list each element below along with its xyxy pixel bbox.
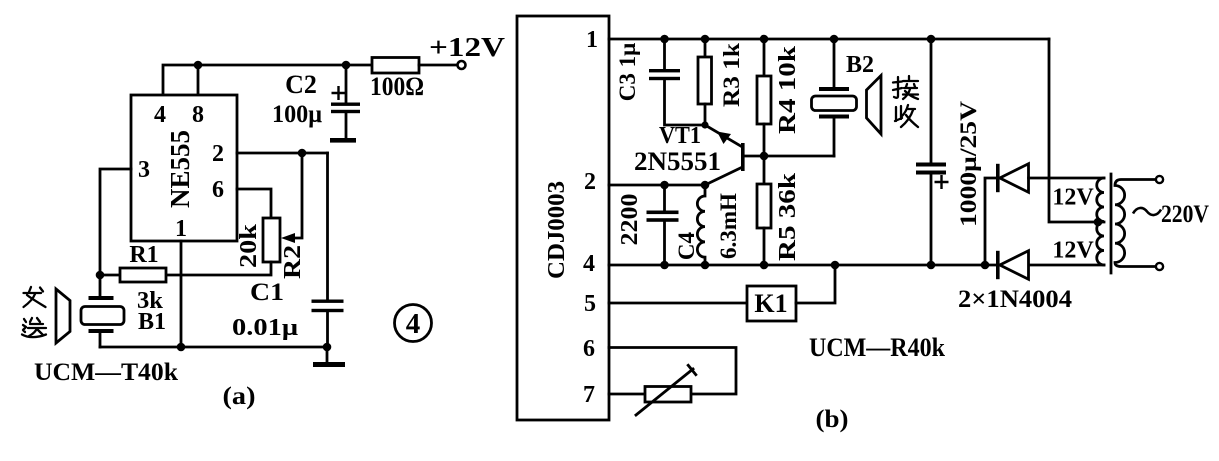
junction B2/rail <box>830 35 839 44</box>
junction R4/rail <box>760 35 769 44</box>
svg-text:5: 5 <box>584 291 596 317</box>
resistor R 100Ω <box>370 58 456 102</box>
preset resistor RP <box>609 365 696 415</box>
svg-text:6.3mH: 6.3mH <box>716 193 741 259</box>
svg-text:12V: 12V <box>1052 238 1094 264</box>
junction C3/rail <box>660 35 669 44</box>
svg-text:100Ω: 100Ω <box>370 72 424 101</box>
transducer B1 <box>81 275 166 347</box>
wire pin 2 rail <box>609 184 705 187</box>
svg-text:UCM—R40k: UCM—R40k <box>809 333 945 362</box>
svg-text:CDJ0003: CDJ0003 <box>544 181 570 279</box>
svg-text:(a): (a) <box>223 383 256 410</box>
junction diode branch/rail4 <box>981 261 990 270</box>
op-amp U1 NE555 <box>131 95 237 242</box>
transformer T primary <box>1115 180 1156 267</box>
svg-text:C3 1μ: C3 1μ <box>615 43 640 101</box>
junction pin8/rail <box>194 61 203 70</box>
junction C5/rail4 <box>927 261 936 270</box>
wire bottom ground rail (a) <box>100 346 328 349</box>
transducer B2 <box>812 39 875 156</box>
wire pin 1 rail <box>609 38 1049 41</box>
junction R5/rail4 <box>760 261 769 270</box>
label UCM-T40k <box>34 359 178 386</box>
svg-text:VT1: VT1 <box>659 123 701 149</box>
capacitor C3 1μ <box>615 39 705 125</box>
capacitor C2 100μ <box>272 65 360 138</box>
junction collector node <box>760 152 769 161</box>
ground under C2 <box>330 138 356 143</box>
resistor R4 10k <box>757 39 801 156</box>
ground under C1 <box>313 347 345 367</box>
svg-text:1: 1 <box>586 27 598 53</box>
label UCM-R40k <box>809 333 945 362</box>
svg-text:1: 1 <box>175 216 187 242</box>
svg-text:C1: C1 <box>250 279 284 306</box>
svg-text:6: 6 <box>212 177 224 203</box>
svg-text:2: 2 <box>212 141 224 167</box>
svg-text:R2: R2 <box>280 245 306 279</box>
IC U2 CDJ0003 <box>517 16 609 420</box>
svg-text:R5 36k: R5 36k <box>775 172 801 261</box>
junction pin2/wiper <box>298 149 307 158</box>
svg-text:0.01μ: 0.01μ <box>232 315 298 341</box>
junction R3/rail <box>701 35 710 44</box>
diode D2 1N4004 (lower) <box>996 251 1029 280</box>
wire top supply rail <box>163 65 372 96</box>
svg-text:100μ: 100μ <box>272 101 322 128</box>
svg-text:3: 3 <box>138 157 150 183</box>
svg-text:K1: K1 <box>754 289 787 318</box>
label ~220V <box>1133 201 1209 228</box>
svg-text:B1: B1 <box>138 309 166 335</box>
svg-text:B2: B2 <box>846 52 874 78</box>
junction pin1/rail <box>177 343 186 352</box>
svg-text:8: 8 <box>192 102 204 128</box>
svg-text:12V: 12V <box>1052 185 1094 211</box>
wire pin 8 stub <box>197 65 200 96</box>
relay K1 <box>609 265 835 321</box>
svg-text:(b): (b) <box>816 406 849 433</box>
terminal +12V <box>429 32 506 69</box>
wire pot bottom to R1 <box>166 262 271 275</box>
svg-text:2: 2 <box>584 169 596 195</box>
text 接收 (receive) <box>893 76 918 127</box>
junction L/rail2 <box>701 181 710 190</box>
wire pin 6 loop <box>609 348 736 395</box>
resistor R5 36k <box>757 156 801 265</box>
svg-text:1000μ/25V: 1000μ/25V <box>956 101 981 227</box>
terminal ~220V bottom <box>1156 263 1163 270</box>
potentiometer R2 20k <box>236 153 306 279</box>
svg-text:R3 1k: R3 1k <box>719 43 744 107</box>
wire pin 4 rail <box>609 264 1104 267</box>
junction rail/C2 <box>342 61 351 70</box>
caption (b) <box>816 406 849 433</box>
diode D1 1N4004 (upper) <box>996 164 1104 193</box>
transformer core <box>1110 174 1113 273</box>
svg-text:R1: R1 <box>129 242 158 268</box>
capacitor C1 0.01μ <box>232 153 344 347</box>
junction centre tap <box>1094 218 1103 227</box>
wire rail to transformer centre tap <box>1049 39 1104 222</box>
caption (a) <box>223 383 256 410</box>
wire pin 2 <box>237 152 328 155</box>
inductor L 6.3mH <box>697 185 741 265</box>
svg-text:2200: 2200 <box>617 194 643 246</box>
label 2×1N4004 <box>958 286 1073 313</box>
svg-text:R4 10k: R4 10k <box>775 45 801 134</box>
svg-text:+12V: +12V <box>429 32 506 62</box>
junction C3/R3/emitter <box>701 121 708 128</box>
junction C5/rail <box>927 35 936 44</box>
resistor R3 1k <box>698 39 744 125</box>
junction C4/rail4 <box>660 261 669 270</box>
svg-text:UCM—T40k: UCM—T40k <box>34 359 178 386</box>
horn of B1 <box>56 289 70 343</box>
transistor VT1 2N5551 <box>634 123 834 185</box>
figure number 4 <box>395 305 432 342</box>
transformer T secondary 12V/12V <box>1052 178 1104 265</box>
wire diode branch riser <box>985 178 996 265</box>
capacitor C4 2200 <box>617 185 699 265</box>
svg-text:6: 6 <box>583 336 595 362</box>
wire pin 3 <box>100 169 131 275</box>
junction L/rail4 <box>701 261 710 270</box>
junction C1/rail <box>323 343 332 352</box>
svg-text:NE555: NE555 <box>165 130 195 208</box>
svg-text:2N5551: 2N5551 <box>634 147 721 176</box>
junction pin3/R1/B1 <box>96 271 105 280</box>
wire pin 1 <box>180 241 183 347</box>
svg-text:2×1N4004: 2×1N4004 <box>958 286 1073 313</box>
wire pin 6 <box>237 189 271 218</box>
svg-text:C2: C2 <box>285 70 317 99</box>
capacitor C5 1000μ/25V <box>916 39 981 265</box>
svg-text:4: 4 <box>406 308 421 340</box>
junction C4/rail2 <box>660 181 669 190</box>
junction K1/rail4 <box>831 261 840 270</box>
text 发送 (transmit) <box>22 287 46 337</box>
svg-text:C4: C4 <box>674 231 699 260</box>
horn of B2 <box>867 76 882 135</box>
svg-text:220V: 220V <box>1161 201 1209 228</box>
svg-text:4: 4 <box>154 102 166 128</box>
terminal ~220V top <box>1156 176 1163 183</box>
svg-text:4: 4 <box>583 251 595 277</box>
resistor R1 3k <box>100 242 166 314</box>
svg-text:7: 7 <box>583 382 595 408</box>
svg-text:20k: 20k <box>236 223 262 268</box>
